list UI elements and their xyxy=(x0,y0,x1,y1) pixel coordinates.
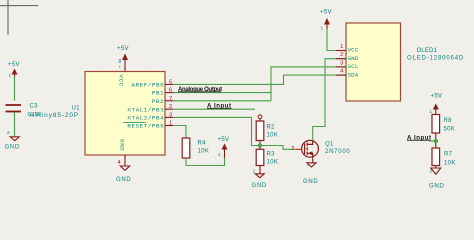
svg-text:C3: C3 xyxy=(30,104,39,110)
svg-text:1: 1 xyxy=(169,121,172,127)
U1 right-side pin stubs (pins 5,6,7,2,3,1) xyxy=(165,84,173,125)
svg-text:GND: GND xyxy=(119,139,126,151)
svg-text:R7: R7 xyxy=(444,152,453,158)
wire C3 bottom to ground xyxy=(14,112,16,137)
Q1 gate pin xyxy=(296,148,302,150)
U1 right-side pin names xyxy=(123,82,164,130)
ground (R3) xyxy=(252,174,267,189)
R2/R3 pin stubs at junction xyxy=(259,141,261,150)
svg-text:XTAL2/PB4: XTAL2/PB4 xyxy=(127,115,164,122)
power +5V symbol (right divider) xyxy=(431,94,443,115)
svg-text:6: 6 xyxy=(169,88,172,94)
svg-text:R8: R8 xyxy=(444,118,453,124)
wire pin3 PB4 to gate junction xyxy=(173,117,260,145)
resistor R2 xyxy=(256,121,278,141)
wire A Input label to divider node xyxy=(429,140,436,142)
svg-text:R4: R4 xyxy=(198,141,207,147)
R8/R7 pin stubs at divider node xyxy=(435,133,437,148)
svg-text:ATtiny85-20P: ATtiny85-20P xyxy=(30,112,80,119)
wire junction to Q1 gate xyxy=(260,146,296,150)
svg-text:7: 7 xyxy=(169,96,172,102)
wire +5V to C3 top xyxy=(14,76,16,101)
svg-text:1: 1 xyxy=(321,26,324,31)
svg-text:+5V: +5V xyxy=(320,10,332,16)
svg-text:PB2: PB2 xyxy=(152,98,164,105)
svg-text:GND: GND xyxy=(303,179,318,185)
OLED1 pin names VCC GND SCL SDA xyxy=(348,47,359,79)
svg-text:U1: U1 xyxy=(72,106,81,112)
label A Input (at U1) xyxy=(207,104,232,110)
svg-text:5: 5 xyxy=(169,79,172,85)
Q1 body arrow xyxy=(308,151,312,155)
power symbol pin-number marks xyxy=(7,26,433,174)
wire R4 bottom to +5V xyxy=(186,158,225,166)
svg-text:10K: 10K xyxy=(444,161,456,167)
IC U1 body xyxy=(85,72,165,156)
resistor R7 xyxy=(432,148,456,167)
svg-text:3: 3 xyxy=(169,112,172,118)
svg-text:GND: GND xyxy=(348,55,359,62)
svg-text:2: 2 xyxy=(291,146,294,152)
resistor R3 xyxy=(256,149,278,165)
svg-text:SCL: SCL xyxy=(348,63,359,70)
svg-text:Q1: Q1 xyxy=(325,141,334,147)
OLED1 pin stubs (1-4) xyxy=(336,51,346,76)
svg-text:XTAL1/PB3: XTAL1/PB3 xyxy=(127,106,164,113)
ground (Q1 source) xyxy=(303,163,318,185)
svg-text:+5V: +5V xyxy=(431,94,443,100)
R7 bottom pin stub xyxy=(435,166,437,169)
junction gate node xyxy=(258,143,262,147)
svg-text:+5V: +5V xyxy=(117,46,129,52)
wire pin2 PB3 (A Input net) xyxy=(173,108,255,110)
svg-text:OLED-1280064D: OLED-1280064D xyxy=(407,56,464,62)
power +5V symbol (U1 VCC) xyxy=(117,46,129,72)
power +5V symbol (C3 branch) xyxy=(8,62,20,79)
svg-text:1: 1 xyxy=(9,73,12,78)
unconnected pin circle (R2 top) xyxy=(258,115,262,119)
svg-text:SDA: SDA xyxy=(348,71,359,78)
OLED module OLED1 body xyxy=(346,23,401,101)
svg-text:2: 2 xyxy=(253,169,256,174)
Q1 source pin to ground xyxy=(312,157,314,163)
wire pin1 RESET to R4 xyxy=(173,126,186,139)
wire +5V to OLED VCC pin xyxy=(327,29,346,51)
svg-text:1: 1 xyxy=(340,44,343,50)
wire pin7 PB2 (SCL net) xyxy=(173,100,271,102)
svg-text:GND: GND xyxy=(5,144,20,150)
label Analogue Output xyxy=(178,87,222,93)
svg-text:2: 2 xyxy=(430,169,433,174)
svg-text:2: 2 xyxy=(169,104,172,110)
wire pin6 PB1 (Analogue Output net) xyxy=(173,92,271,94)
svg-text:PB1: PB1 xyxy=(152,90,164,97)
svg-text:VCC: VCC xyxy=(118,75,125,87)
OLED1 pin numbers 1,2,3,4 xyxy=(340,44,344,75)
svg-text:2: 2 xyxy=(340,52,343,58)
svg-text:GND: GND xyxy=(429,184,444,190)
label A Input (right divider) xyxy=(407,135,432,141)
transistor Q1 xyxy=(302,140,319,157)
svg-text:2N7000: 2N7000 xyxy=(325,149,351,155)
svg-text:2: 2 xyxy=(7,130,10,135)
ground (C3) xyxy=(5,137,20,151)
svg-text:GND: GND xyxy=(116,177,131,183)
R3 bottom pin stub xyxy=(259,166,261,174)
svg-text:1: 1 xyxy=(307,162,310,167)
svg-text:1: 1 xyxy=(430,109,433,114)
resistor R8 xyxy=(432,115,455,134)
svg-text:RESET/PB5: RESET/PB5 xyxy=(127,123,164,130)
power +5V symbol (OLED VCC) xyxy=(320,10,332,30)
svg-text:50K: 50K xyxy=(444,127,456,133)
R2 top pin stub xyxy=(259,119,261,121)
svg-text:VCC: VCC xyxy=(348,47,359,54)
svg-text:+5V: +5V xyxy=(218,137,230,143)
svg-text:3: 3 xyxy=(340,60,343,66)
svg-text:AREF/PB0: AREF/PB0 xyxy=(132,82,165,89)
svg-text:+: + xyxy=(119,65,122,70)
wire OLED SCL down to pin7 xyxy=(271,67,346,101)
U1 pin 4 stub and ground xyxy=(116,155,131,183)
svg-text:R3: R3 xyxy=(267,152,276,158)
svg-text:10K: 10K xyxy=(198,149,210,155)
resistor R4 xyxy=(182,138,209,158)
svg-text:OLED1: OLED1 xyxy=(417,48,438,54)
svg-text:10K: 10K xyxy=(267,160,279,166)
wire OLED GND to Q1 drain xyxy=(313,59,346,141)
ground (right divider) xyxy=(429,168,444,190)
svg-text:GND: GND xyxy=(252,183,267,189)
junction divider node xyxy=(434,139,438,143)
wire pin5 PB0 to OLED SDA xyxy=(173,75,346,84)
capacitor C3 xyxy=(6,105,22,112)
svg-text:R2: R2 xyxy=(267,125,276,131)
U1 pin numbers 5,6,7,2,3,1 xyxy=(169,79,172,126)
svg-text:+5V: +5V xyxy=(8,62,20,68)
svg-text:1: 1 xyxy=(218,152,221,157)
svg-text:10K: 10K xyxy=(267,133,279,139)
power +5V symbol (R4 pullup) xyxy=(218,137,230,158)
